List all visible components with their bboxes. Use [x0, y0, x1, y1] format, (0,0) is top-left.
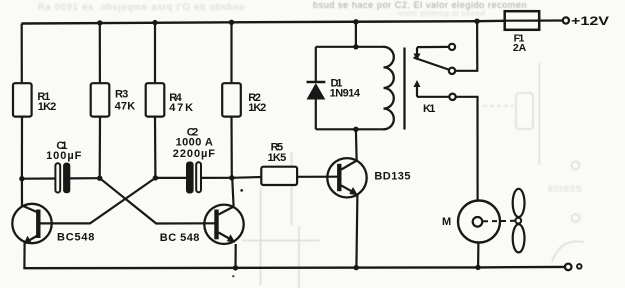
junction node Q2 emitter-rail [233, 265, 238, 270]
wire Q3 emitter to bottom rail [356, 195, 357, 268]
svg-text:M: M [442, 216, 451, 228]
junction node rail-contact [474, 19, 479, 24]
wire Q1 emitter to bottom rail [23, 243, 25, 269]
wire rail to relay box top [355, 22, 357, 47]
relay contact NO terminal [449, 94, 455, 100]
svg-text:47K: 47K [169, 102, 193, 114]
wire R4 bottom to node [154, 117, 157, 178]
resistor R5 [261, 167, 297, 185]
junction node relay bottom edge [353, 127, 358, 132]
junction node rail-R2 [229, 20, 234, 25]
wire R4 top [154, 23, 156, 84]
wire R5 to Q3 base [297, 176, 337, 178]
propeller hub [515, 218, 521, 224]
wire C1 right [69, 177, 100, 179]
wire Q2 collector vertical [232, 178, 233, 207]
junction node R1-C1 [19, 176, 24, 181]
wire R2 top [230, 22, 232, 84]
wire R2 bottom to node [230, 117, 233, 178]
wire arrow to contact C [417, 96, 449, 98]
svg-text:1000 A: 1000 A [176, 137, 213, 149]
svg-text:K1: K1 [423, 103, 435, 115]
svg-text:+12V: +12V [571, 14, 609, 28]
svg-text:1K2: 1K2 [248, 102, 266, 114]
junction node motor-rail [475, 265, 480, 270]
resistor R1 [13, 83, 32, 116]
svg-text:BC 548: BC 548 [160, 232, 200, 244]
svg-text:BC548: BC548 [57, 232, 94, 244]
transistor Q2 BC548 [204, 205, 243, 244]
diode D1 [307, 82, 326, 100]
wire R3 bottom to node [99, 117, 102, 179]
relay coil K1 [384, 47, 394, 130]
capacitor C2 [173, 126, 215, 193]
junction node rail-R3 [97, 20, 102, 25]
svg-text:80I83S: 80I83S [548, 184, 583, 194]
junction node R3-C1 [97, 176, 102, 181]
relay box left edge with diode [316, 47, 385, 130]
wire bottom rail [23, 267, 565, 268]
wire contact C to motor vertical [456, 97, 478, 201]
svg-text:Ra 0091 es .obsjeqme asrq I'O: Ra 0091 es .obsjeqme asrq I'O eb obsbno [38, 2, 245, 12]
wire contact B to +12V rail vertical [455, 21, 477, 71]
wire cross coupling R3-node to Q2 base diagonal [100, 178, 215, 223]
svg-text:47K: 47K [115, 100, 136, 112]
svg-text:1N914: 1N914 [330, 88, 361, 100]
svg-text:2200µF: 2200µF [173, 148, 215, 160]
svg-text:BD135: BD135 [374, 171, 410, 183]
output terminal large [565, 264, 572, 271]
svg-text:R3: R3 [115, 88, 128, 100]
wire R3 top [99, 23, 101, 84]
motor M [458, 201, 500, 243]
relay actuation arrow up [414, 80, 421, 97]
wire R2 node to R5 [232, 176, 262, 179]
motor shaft dashed [483, 220, 515, 223]
transistor Q1 BC548 [12, 204, 51, 245]
relay core line [403, 48, 405, 130]
svg-text:2A: 2A [513, 42, 527, 54]
transistor Q3 BD135 [327, 158, 366, 197]
wire fuse through line [505, 20, 539, 22]
fuse F1 [505, 11, 540, 30]
wire C2 right [201, 177, 232, 179]
wire top rail fuse to +12V [539, 19, 563, 21]
svg-text:100µF: 100µF [46, 150, 82, 162]
wire C1 node to Q1 collector [21, 179, 23, 207]
wire relay box bottom to Q3 collector [355, 129, 358, 160]
terminal +12V [563, 17, 569, 23]
resistor R2 [222, 83, 241, 116]
wire motor to bottom rail [477, 242, 479, 267]
relay actuation arrow down [414, 47, 421, 60]
resistor R3 [91, 83, 110, 116]
propeller top blade [513, 189, 525, 217]
junction node relay top edge [353, 44, 358, 49]
relay box bottom edge [316, 128, 385, 130]
ghost artifacts (page bleed-through) [242, 63, 584, 288]
propeller bottom blade [513, 224, 525, 252]
resistor R4 [146, 83, 165, 116]
relay contact NC terminal [449, 44, 455, 50]
ink speck below rail [232, 275, 234, 277]
relay contact common terminal [449, 68, 455, 74]
junction node Q3 emitter-rail [354, 265, 359, 270]
wire contact A to pivot [417, 46, 449, 48]
relay box top edge [316, 46, 385, 48]
capacitor C1 [46, 140, 82, 193]
wire left vertical top (R1 to rail) [21, 24, 23, 85]
wire R1 bottom to C1 node [21, 117, 23, 180]
svg-text:1K5: 1K5 [268, 152, 287, 164]
svg-text:1K2: 1K2 [38, 101, 57, 113]
junction node R2-C2-R5 [229, 175, 234, 180]
wire C1 left [22, 177, 56, 179]
wire C2 left [155, 177, 187, 179]
ink speck between transistors [240, 189, 243, 192]
junction node rail-relay [353, 19, 358, 24]
junction node R4-C2 [153, 175, 158, 180]
svg-text:onim pnimoq sl ssned: onim pnimoq sl ssned [398, 9, 485, 18]
wire cross coupling R4-node to Q1 base diagonal [40, 178, 155, 224]
output terminal small [577, 264, 582, 269]
wire Q2 emitter to bottom rail [234, 244, 236, 268]
wire top rail [22, 21, 505, 24]
junction node rail-R4 [152, 20, 157, 25]
relay moving blade [414, 58, 449, 70]
